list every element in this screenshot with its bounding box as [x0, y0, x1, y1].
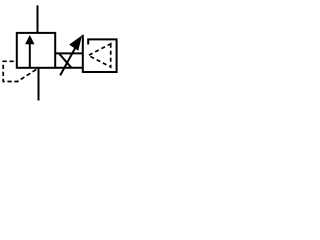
adjustment arrow shaft: [60, 47, 76, 76]
wire bottom port line: [38, 68, 40, 101]
spring cage bottom rail: [55, 67, 82, 69]
pilot triangle dashed: [88, 44, 110, 67]
pilot box open on left: [83, 39, 117, 72]
spring X diagonal: [59, 54, 72, 68]
pilot dashed line path: [3, 61, 36, 81]
spring cage top rail: [55, 52, 82, 54]
adjustment arrow head: [69, 35, 82, 50]
valve body box: [17, 33, 55, 68]
flow arrow head: [25, 35, 34, 44]
wire top port line: [37, 5, 39, 33]
flow arrow shaft: [29, 44, 31, 68]
spring cage right vertical: [82, 35, 84, 73]
